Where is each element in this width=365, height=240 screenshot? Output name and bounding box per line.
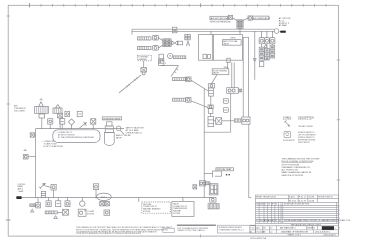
svg-text:RES 1: RES 1 xyxy=(101,197,108,199)
svg-text:12.86: 12.86 xyxy=(308,197,314,199)
svg-text:DWG 27B00213: DWG 27B00213 xyxy=(298,142,310,144)
fitting F5 bottom of column xyxy=(234,117,250,124)
drain boxes under reservoir xyxy=(100,202,110,206)
hand valve HV1 xyxy=(39,183,51,197)
svg-text:MAIN CHARGING VALVE IN: MAIN CHARGING VALVE IN xyxy=(282,171,312,174)
hose fitting H1b xyxy=(138,45,163,50)
glyph boxes xyxy=(223,98,228,112)
svg-text:AB WABLINE C: AB WABLINE C xyxy=(280,227,297,230)
LEGEND-NOTES xyxy=(282,117,320,176)
svg-text:4: 4 xyxy=(339,218,340,220)
svg-text:MODIF. DWG N: MODIF. DWG N xyxy=(318,197,333,199)
wire vertical V1 xyxy=(35,129,37,198)
hose fitting H3b xyxy=(173,98,208,108)
dashed label: to engine cranking xyxy=(138,55,152,61)
wire diagonal to lower fittings xyxy=(161,65,178,76)
svg-text:550 L/MIN: 550 L/MIN xyxy=(14,110,25,112)
side tap ST1 xyxy=(23,149,35,159)
drain valve TV1 xyxy=(141,61,147,75)
compressor label text xyxy=(14,105,26,113)
svg-text:co: co xyxy=(270,231,272,233)
svg-text:PROBLEM ADLWAY DIRECTOR BRT OL: PROBLEM ADLWAY DIRECTOR BRT OL RAILWAY D… xyxy=(284,219,350,222)
reservoir RES1 xyxy=(96,193,111,200)
valve box BB3 xyxy=(65,198,70,207)
svg-text:OPEN AT MAX 12: OPEN AT MAX 12 xyxy=(126,131,142,134)
svg-text:IF NOT IS APPLIED: IF NOT IS APPLIED xyxy=(44,145,65,148)
dots xyxy=(226,174,230,176)
legend symbol: component ref xyxy=(284,131,291,137)
callout right: lubricator label xyxy=(243,16,271,21)
LEFT-BRANCH xyxy=(14,98,132,197)
revision header strip xyxy=(255,202,338,223)
wire vertical trunk V3 xyxy=(203,89,205,198)
valve VA xyxy=(259,38,264,44)
flow arrow on drop xyxy=(253,59,256,62)
air compressor xyxy=(35,98,49,128)
cartridge CC xyxy=(270,44,275,58)
svg-text:SYSTEM: SYSTEM xyxy=(143,211,150,213)
branch box on V1 xyxy=(30,133,35,137)
svg-text:ALL PORTS ON: ALL PORTS ON xyxy=(282,169,299,172)
cartridge CB xyxy=(265,44,270,60)
wire left manifold H2 xyxy=(36,128,124,129)
svg-text:2013.4/5071: 2013.4/5071 xyxy=(324,234,336,236)
air dryer AD1 xyxy=(104,122,114,146)
text to consumers xyxy=(87,210,95,215)
callout left: air filter label xyxy=(210,15,237,23)
valve box BB5 xyxy=(104,210,110,215)
narrow pipe column xyxy=(243,37,248,117)
svg-text:5: 5 xyxy=(339,222,340,224)
muffler RC4 xyxy=(208,204,219,209)
note: transmission railway xyxy=(172,202,194,217)
solenoid valve block SV2 xyxy=(163,39,171,47)
bracket note xyxy=(42,141,65,148)
flow arrow on branch xyxy=(80,122,87,128)
governor G2 xyxy=(53,105,63,129)
logo (filled) xyxy=(322,226,334,230)
pressure note text top right xyxy=(279,17,291,27)
cartridge CA xyxy=(259,44,264,67)
hose fitting BH2 xyxy=(45,209,68,218)
svg-text:IF THE (PRESSURIZED) IS APPLIE: IF THE (PRESSURIZED) IS APPLIED xyxy=(58,136,95,139)
svg-text:7 BAR: 7 BAR xyxy=(18,190,24,193)
valve M1 xyxy=(208,75,217,96)
wire drain vertical xyxy=(249,124,251,198)
hose fitting BH1 xyxy=(30,198,41,212)
svg-text:SYSTEM: SYSTEM xyxy=(173,213,180,215)
wire drops to cylinder valves xyxy=(262,32,273,38)
check box CB1 xyxy=(65,111,70,116)
svg-text:CRANKING: CRANKING xyxy=(138,58,147,61)
svg-text:DIAGRAM OF RESERVOIR: DIAGRAM OF RESERVOIR xyxy=(281,231,308,234)
print footer text below frame xyxy=(250,237,267,240)
svg-text:SHEET 1 OF 1: SHEET 1 OF 1 xyxy=(288,234,301,236)
svg-text:TOUS DROITS RESERVES POUR BREV: TOUS DROITS RESERVES POUR BREVET ET MODE… xyxy=(76,233,142,235)
valve VC xyxy=(270,38,275,44)
svg-text:ONE WAY CYLINDER: ONE WAY CYLINDER xyxy=(298,125,313,128)
svg-text:1:10: 1:10 xyxy=(250,228,254,230)
svg-text:MODIFICATION DESCRIPTION: MODIFICATION DESCRIPTION xyxy=(284,203,310,206)
svg-text:GM: GM xyxy=(263,231,266,233)
svg-text:12.86: 12.86 xyxy=(308,200,314,202)
notes block xyxy=(282,157,320,176)
svg-text:VALVE: VALVE xyxy=(213,72,220,75)
cartridge RC2 xyxy=(209,184,218,195)
valve box BB4 xyxy=(78,209,86,216)
wire F6 drain to trunk xyxy=(204,93,231,132)
wire valve chain xyxy=(214,120,235,122)
hose fitting H1a xyxy=(138,35,163,40)
check box RCB xyxy=(193,185,197,189)
supply arrow (filled) xyxy=(16,196,22,199)
gauge G1 at manifold end xyxy=(274,29,279,34)
bottom block xyxy=(255,223,338,233)
svg-text:GOVERNOR VALVE: GOVERNOR VALVE xyxy=(103,117,121,120)
valve VB xyxy=(264,38,269,44)
svg-text:ST: ST xyxy=(275,204,277,206)
svg-text:AIR FILTER UNIT: AIR FILTER UNIT xyxy=(211,17,230,20)
wire seat pipe xyxy=(204,171,221,178)
valve M2 xyxy=(208,96,213,113)
valve on line RC3 xyxy=(210,197,216,202)
valve block FV1 (filter unit) xyxy=(237,20,243,29)
svg-text:VALVE: VALVE xyxy=(223,42,229,45)
motor M with thread xyxy=(168,53,186,58)
revision row text xyxy=(256,219,351,222)
SP02 slow turning valve label xyxy=(212,67,229,75)
svg-text:AIR LUBRICATOR: AIR LUBRICATOR xyxy=(253,17,271,20)
title block outer xyxy=(255,195,338,233)
svg-text:81.612: 81.612 xyxy=(289,200,296,202)
safety valve SV1 xyxy=(116,126,124,134)
legend header xyxy=(283,117,314,119)
gauge circle BG1 xyxy=(80,198,85,207)
wire bottom manifold H3 xyxy=(17,197,213,198)
wire main supply manifold (double line) xyxy=(132,29,274,34)
svg-text:OTHERWISE STATED Ra 3.2: OTHERWISE STATED Ra 3.2 xyxy=(218,228,243,231)
flow arrow (filled) to consumers xyxy=(280,30,286,33)
svg-text:6.lu 8: 6.lu 8 xyxy=(299,200,306,202)
callout bubble with notes xyxy=(53,130,100,143)
svg-text:REFER TO ISO 2768 CLASS m: REFER TO ISO 2768 CLASS m xyxy=(177,229,205,232)
fitting RC1 xyxy=(200,181,210,186)
warning triangle xyxy=(264,45,267,48)
svg-text:1: 1 xyxy=(339,206,340,208)
inline check valve on manifold xyxy=(172,27,177,33)
svg-text:6: 6 xyxy=(339,227,340,229)
svg-text:2: 2 xyxy=(339,210,340,212)
legend desc 2 xyxy=(298,132,316,144)
svg-text:8.616: 8.616 xyxy=(289,197,295,199)
bottom notes ribbon xyxy=(76,225,255,235)
MAIN-MANIFOLD xyxy=(119,15,291,197)
valve M3 with side box xyxy=(208,113,222,126)
top info rows xyxy=(255,195,338,202)
svg-text:dis.: dis. xyxy=(256,227,261,229)
junction dots on manifold xyxy=(210,31,273,32)
svg-text:vo: vo xyxy=(270,227,272,229)
legend symbol: one way arrow xyxy=(284,120,290,126)
revision rows xyxy=(255,207,338,221)
svg-text:C2: C2 xyxy=(256,220,258,222)
svg-text:F.lu 4: F.lu 4 xyxy=(299,197,306,199)
SP07 brake system box xyxy=(199,35,243,63)
svg-text:3: 3 xyxy=(339,214,340,216)
quick coupling with A port xyxy=(172,41,190,46)
governor valve label xyxy=(102,117,121,120)
check box CB2 xyxy=(91,119,96,129)
row index marks right of block xyxy=(339,206,340,230)
wire drop manifold to SP07 box xyxy=(210,32,212,35)
svg-text:SM: SM xyxy=(263,227,266,229)
footer text xyxy=(288,234,336,236)
control panel text xyxy=(18,184,26,193)
svg-text:AT 8AM: AT 8AM xyxy=(279,24,287,27)
air cylinder AC1 xyxy=(159,54,168,65)
title block left margin column xyxy=(250,226,256,234)
port box PB2 xyxy=(60,119,65,129)
valve box BB2 xyxy=(56,198,61,207)
svg-text:THE DRAWING SHOWS THE SYSTEM: THE DRAWING SHOWS THE SYSTEM xyxy=(282,157,320,160)
svg-text:PNEUMATIC PRESSURE ON: PNEUMATIC PRESSURE ON xyxy=(282,166,311,169)
port box PB3 xyxy=(51,184,56,197)
wire drop valve block to SP07 box xyxy=(239,28,241,34)
dashed note: railway braking xyxy=(142,202,171,213)
valve box BB1 xyxy=(46,198,51,207)
hose fitting H3a xyxy=(173,77,209,91)
safety valve text xyxy=(116,134,132,139)
svg-text:SYSTEM: SYSTEM xyxy=(87,214,94,216)
wire SP07 to SP02 xyxy=(227,63,229,69)
gauge circle GC1 xyxy=(68,119,74,129)
port box PB1 xyxy=(48,119,53,129)
special seat label xyxy=(216,168,234,171)
svg-text:2013.4/5071: 2013.4/5071 xyxy=(315,232,331,234)
svg-text:XXXXXXXXXX: XXXXXXXXXX xyxy=(283,140,295,142)
svg-text:SERVICE POSITION: SERVICE POSITION xyxy=(282,175,304,177)
wire drop to right column xyxy=(254,32,256,80)
fitting F6 xyxy=(227,62,242,93)
BOTTOM-MANIFOLD xyxy=(16,168,233,219)
wire stub to railway note xyxy=(138,198,140,202)
port box P2 xyxy=(185,34,191,39)
svg-text:WITH DIS.PRESSURE: WITH DIS.PRESSURE xyxy=(210,21,232,23)
TITLEBLOCK xyxy=(76,195,350,240)
svg-text:VALVE: VALVE xyxy=(116,137,123,140)
svg-text:FIRST ISSUE 04.05: FIRST ISSUE 04.05 xyxy=(256,197,276,199)
port box PB4 xyxy=(93,184,98,198)
label text mid-left xyxy=(126,127,145,135)
wire diagonal continuation arrow xyxy=(119,75,141,93)
